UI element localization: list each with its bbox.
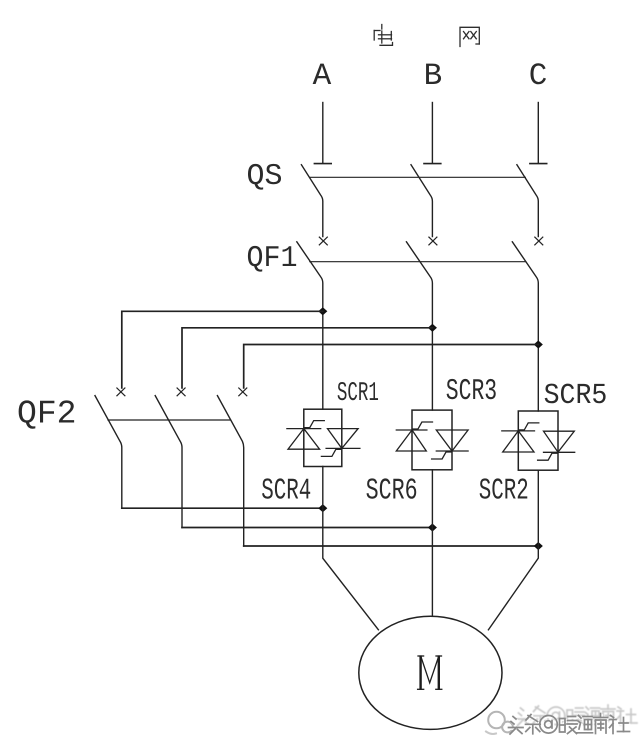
- switch QS pole C blade and wire: [517, 165, 538, 237]
- motor M letter: [418, 656, 442, 689]
- watermark emboss copy: [510, 715, 631, 736]
- wire phase C drop: [537, 103, 539, 164]
- thyristor SCR1 cathode bar: [287, 428, 321, 430]
- switch QS pole B contact bar: [424, 163, 441, 165]
- watermark ghost copy: [516, 705, 637, 726]
- breaker QF1 pole C blade and wire: [512, 242, 538, 411]
- switch QS pole A blade and wire: [301, 165, 322, 237]
- wire SCR group C to motor: [488, 470, 538, 630]
- breaker QF1 pole B contact cross: [429, 237, 437, 245]
- wire phase A drop: [322, 103, 324, 164]
- title character DIAN (electric): [374, 25, 392, 46]
- breaker QF2 pole 1 contact cross: [117, 388, 125, 396]
- wire bypass branch 3 bottom: [244, 545, 539, 547]
- thyristor SCR3 cathode bar: [396, 429, 427, 431]
- svg-text:B: B: [424, 59, 443, 94]
- svg-text:SCR5: SCR5: [544, 379, 608, 412]
- thyristor SCR4 gate: [321, 449, 340, 456]
- breaker QF2 pole 2 contact cross: [177, 388, 185, 396]
- motor M circle: [359, 616, 502, 729]
- node junction dot A top: [319, 308, 327, 315]
- node junction dot A bottom: [319, 505, 327, 512]
- thyristor SCR4 anode bar: [326, 447, 360, 449]
- svg-text:SCR1: SCR1: [337, 379, 379, 409]
- svg-text:SCR3: SCR3: [446, 375, 497, 409]
- svg-text:C: C: [529, 59, 548, 94]
- breaker QF2 pole 2 blade and wire: [155, 396, 182, 528]
- breaker QF2 pole 1 blade and wire: [95, 396, 122, 509]
- svg-text:QF1: QF1: [247, 242, 298, 276]
- thyristor SCR1 triangle: [288, 429, 320, 450]
- switch QS pole A contact bar: [314, 163, 331, 165]
- breaker QF2 pole 3 contact cross: [239, 388, 247, 396]
- svg-text:A: A: [313, 59, 332, 94]
- thyristor pair box U3: [518, 411, 558, 470]
- watermark icon circles: [486, 712, 513, 734]
- thyristor SCR2 anode bar: [544, 451, 575, 453]
- breaker QF1 pole B blade and wire: [406, 242, 432, 410]
- thyristor SCR2 triangle: [544, 431, 575, 452]
- thyristor SCR2 gate: [538, 453, 557, 460]
- thyristor SCR6 triangle: [436, 430, 468, 451]
- svg-text:SCR2: SCR2: [479, 475, 529, 509]
- wire bypass branch 2 top: [182, 328, 432, 388]
- wire bypass branch 2 bottom: [182, 527, 432, 529]
- svg-text:QF2: QF2: [17, 396, 77, 433]
- breaker QF1 pole C contact cross: [535, 237, 543, 245]
- wire bypass branch 1 top: [122, 311, 323, 388]
- thyristor SCR5 cathode bar: [502, 430, 535, 432]
- watermark main text: [509, 714, 630, 735]
- breaker QF2 linkage line: [108, 419, 231, 421]
- breaker QF1 pole A blade and wire: [297, 242, 323, 409]
- svg-text:SCR6: SCR6: [366, 475, 418, 509]
- thyristor SCR5 gate: [519, 423, 538, 430]
- breaker QF2 pole 3 blade and wire: [217, 396, 243, 546]
- node junction dot C top: [535, 341, 543, 348]
- wire bypass branch 3 top: [244, 345, 539, 388]
- svg-text:QS: QS: [247, 160, 283, 194]
- thyristor pair box U2: [412, 410, 452, 470]
- svg-text:SCR4: SCR4: [261, 475, 311, 509]
- thyristor SCR3 triangle: [396, 430, 426, 451]
- breaker QF1 linkage line: [310, 261, 526, 263]
- wire phase B drop: [431, 103, 433, 164]
- node junction dot C bottom: [535, 543, 543, 550]
- switch QS linkage line: [310, 176, 526, 178]
- switch QS pole B blade and wire: [411, 165, 432, 237]
- thyristor SCR1 gate: [305, 421, 324, 428]
- breaker QF1 pole A contact cross: [319, 237, 327, 245]
- thyristor SCR6 gate: [432, 452, 451, 459]
- thyristor SCR4 triangle: [328, 429, 359, 449]
- node junction dot B top: [429, 324, 437, 331]
- wire SCR group A to motor: [323, 467, 379, 630]
- switch QS pole C contact bar: [530, 163, 547, 165]
- thyristor SCR5 triangle: [503, 431, 534, 452]
- thyristor SCR3 gate: [413, 422, 432, 429]
- thyristor SCR6 anode bar: [436, 450, 468, 452]
- thyristor pair box U1: [304, 409, 342, 466]
- wire SCR group B to motor: [431, 470, 433, 616]
- wire bypass branch 1 bottom: [122, 507, 323, 509]
- title character WANG (grid): [460, 27, 479, 46]
- node junction dot B bottom: [429, 524, 437, 531]
